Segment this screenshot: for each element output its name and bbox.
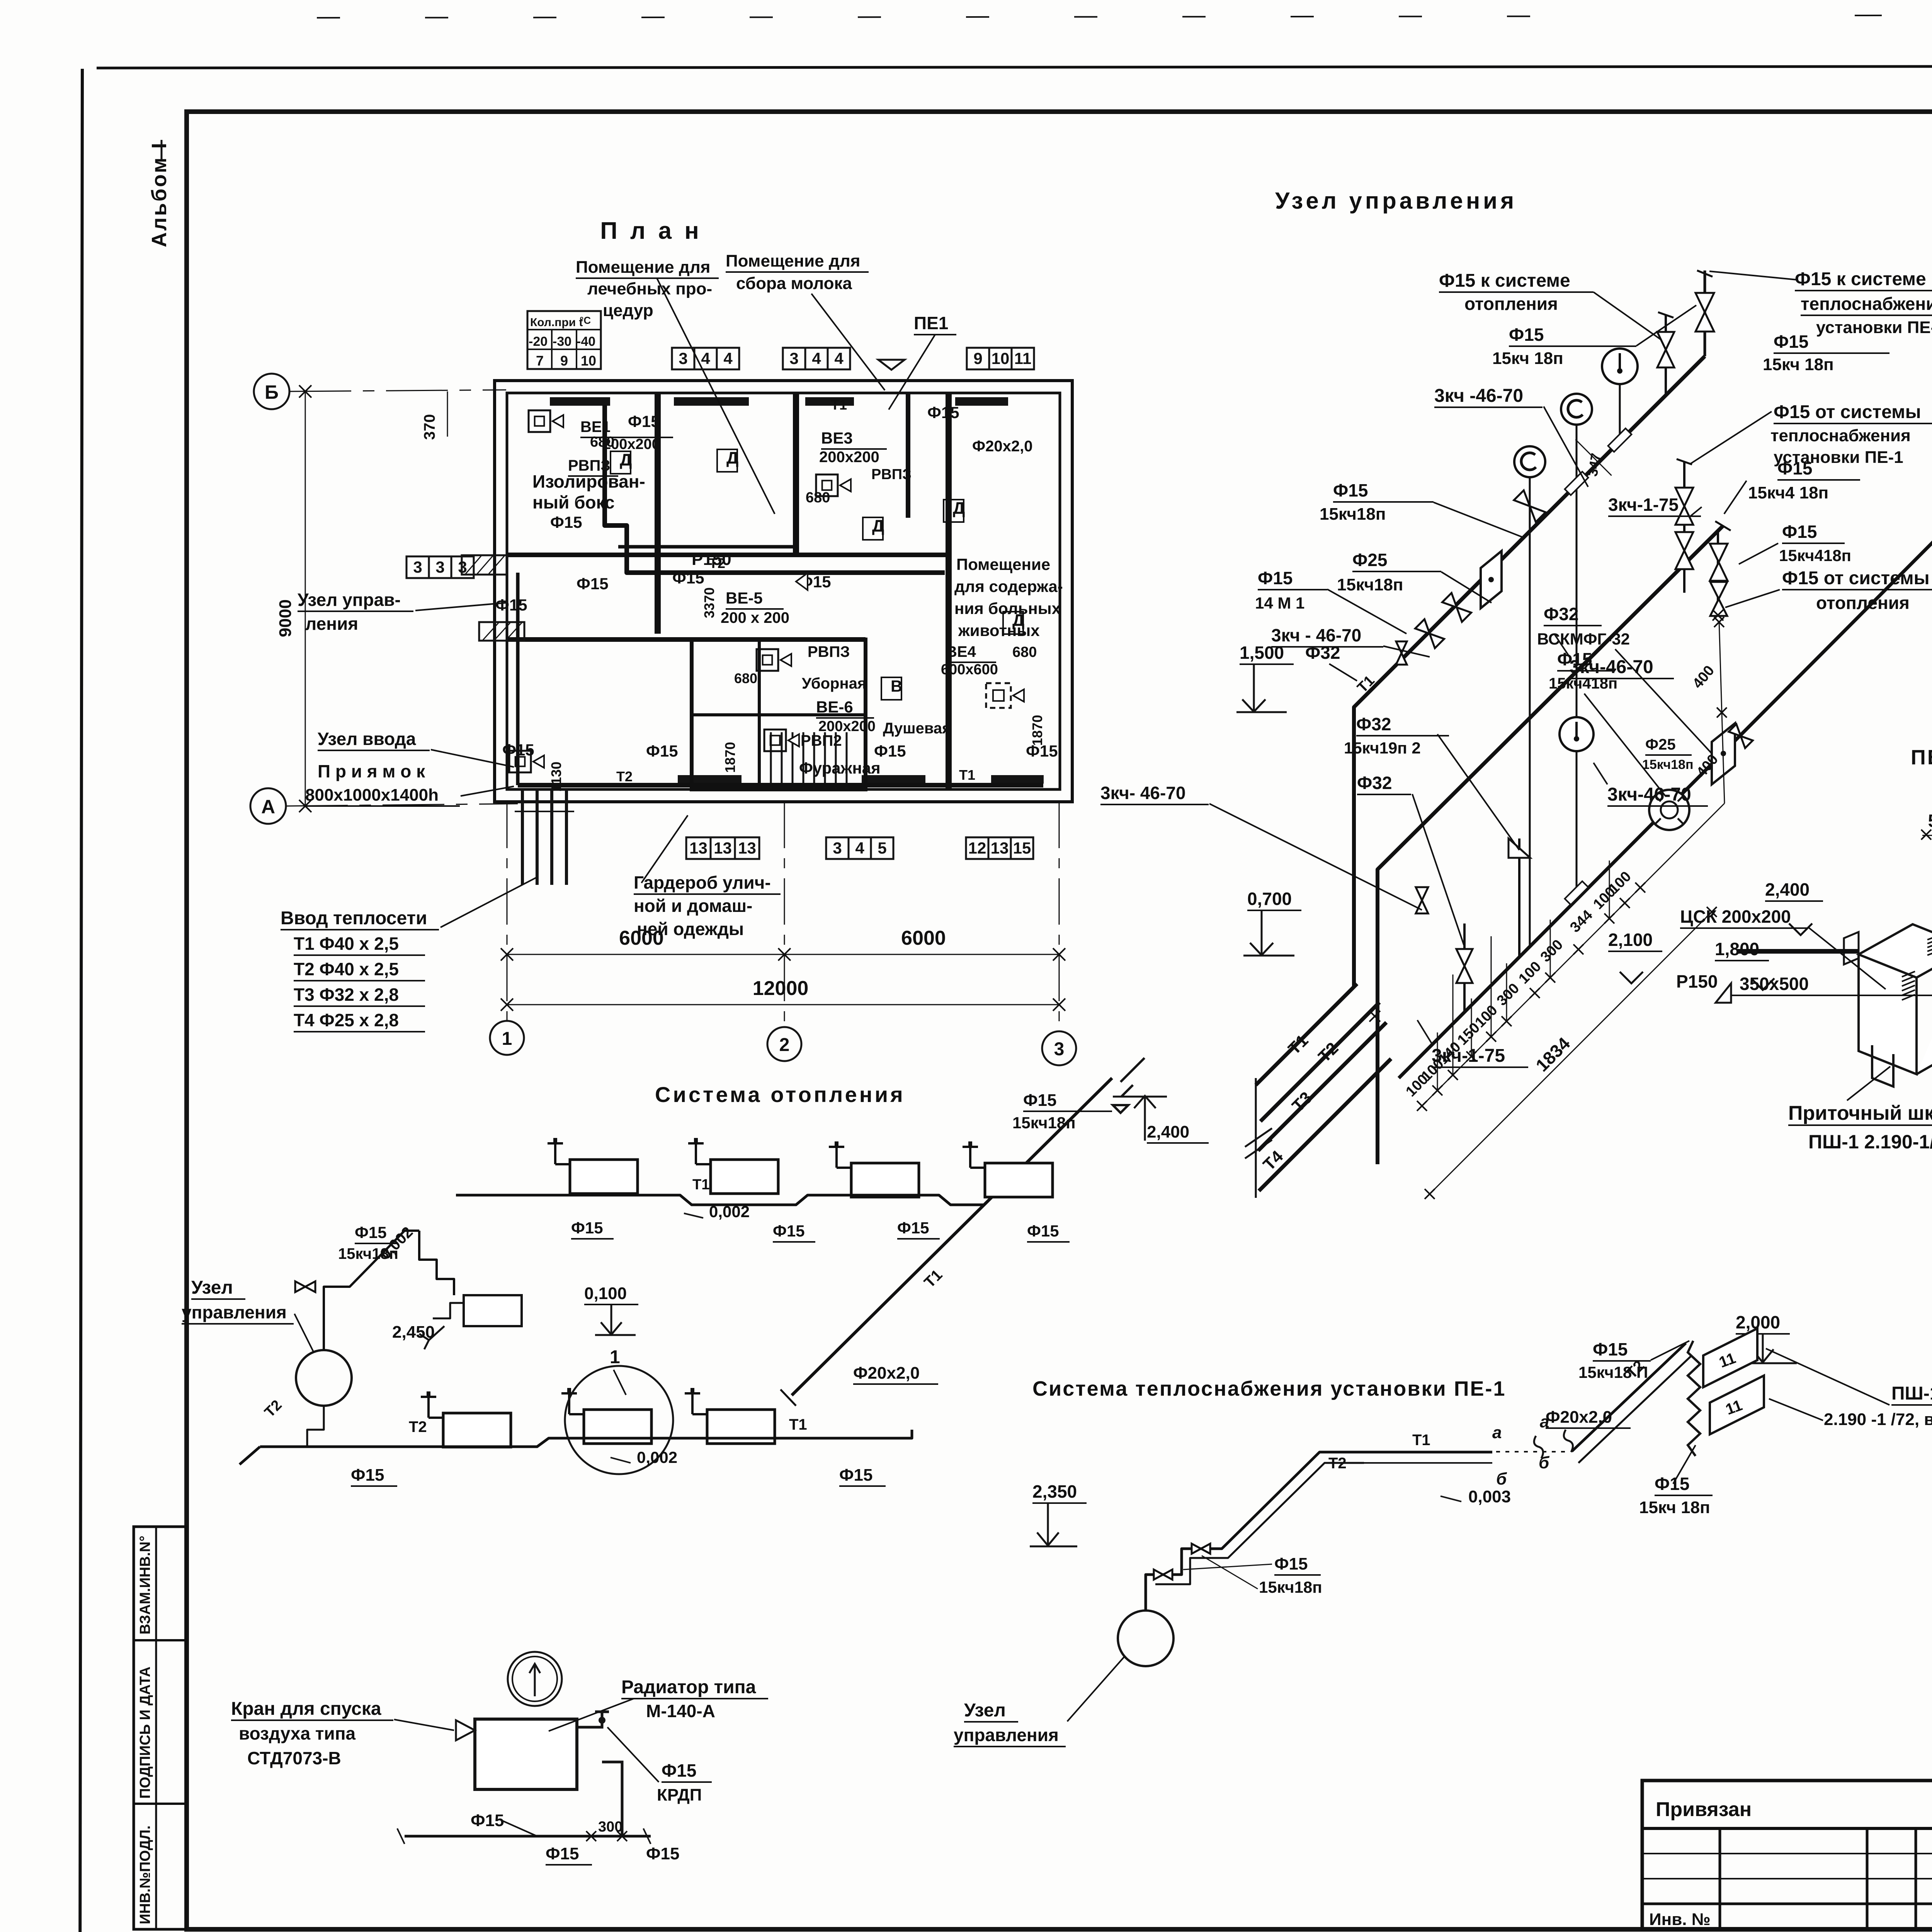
svg-text:2,400: 2,400 — [1765, 879, 1810, 900]
cabinet louver 1 — [1927, 932, 1932, 955]
heating vent tick — [419, 1326, 444, 1349]
partition wall mid low — [692, 637, 866, 642]
small table row Привязан bottom — [1642, 1827, 1932, 1830]
svg-text:10: 10 — [992, 349, 1010, 367]
corner flag on riser C2 — [1509, 838, 1530, 858]
run B low tick — [1713, 610, 1723, 621]
small valve run C a — [1729, 724, 1753, 748]
small table row3 — [1642, 1878, 1932, 1879]
chain drop line 3 — [1471, 998, 1472, 1056]
svg-text:Ф15: Ф15 — [773, 1222, 805, 1240]
leader приямок — [461, 786, 514, 796]
svg-text:ПЕ-1: ПЕ-1 — [1911, 746, 1932, 769]
svg-text:ней одежды: ней одежды — [637, 919, 744, 939]
svg-text:ИНВ.№ПОДЛ.: ИНВ.№ПОДЛ. — [137, 1825, 153, 1924]
svg-text:800х1000х1400h: 800х1000х1400h — [305, 786, 439, 804]
axon elev 1500 — [1236, 665, 1287, 712]
svg-text:Уборная: Уборная — [802, 675, 866, 692]
detail bottom pipe — [405, 1835, 651, 1838]
riser on run B mid — [1683, 462, 1685, 593]
pipe run bottom T — [518, 783, 1043, 787]
svg-text:Радиатор типа: Радиатор типа — [621, 1677, 756, 1697]
ts dotted gap — [1496, 1451, 1568, 1452]
heating top end device — [1113, 1058, 1145, 1113]
svg-text:Ф15: Ф15 — [662, 1760, 696, 1781]
dim tick A — [299, 800, 311, 812]
svg-text:П р и я м о к: П р и я м о к — [318, 761, 425, 781]
detail air valve — [456, 1720, 475, 1740]
partition wall v1 — [655, 393, 661, 634]
chain tick 12 — [1635, 883, 1645, 893]
svg-text:Ф25: Ф25 — [1645, 736, 1676, 753]
vent unit VE-6 — [764, 730, 786, 751]
svg-text:отопления: отопления — [1816, 593, 1910, 613]
svg-text:теплоснабжения: теплоснабжения — [1801, 294, 1932, 314]
ts diag to PSh — [1572, 1343, 1686, 1451]
cabinet flange — [1844, 932, 1859, 964]
svg-text:350х500: 350х500 — [1740, 974, 1809, 994]
svg-text:15кч 18п: 15кч 18п — [1492, 349, 1563, 368]
inlet pipe T3 diagonal — [1258, 1022, 1386, 1151]
svg-text:Ф15: Ф15 — [1509, 325, 1544, 345]
riser B mid tick — [1677, 459, 1692, 464]
chain tick 4 — [1466, 1051, 1476, 1061]
detail circle double — [508, 1652, 562, 1706]
heating stair2 — [433, 1303, 464, 1318]
svg-text:Ф32: Ф32 — [1544, 604, 1578, 624]
svg-text:Ф20х2,0: Ф20х2,0 — [972, 438, 1032, 455]
heat inlet riser ticks — [515, 811, 530, 812]
heating main T1 line — [456, 1195, 842, 1205]
svg-text:ления: ления — [305, 614, 358, 634]
pad on run A 2 — [1565, 472, 1588, 495]
axon leader Ф25 — [1441, 572, 1492, 603]
svg-text:теплоснабжения: теплоснабжения — [1770, 426, 1911, 445]
svg-text:15кч18 П: 15кч18 П — [1578, 1363, 1648, 1381]
box Д2 — [717, 449, 737, 472]
climate table — [527, 311, 601, 369]
partition wall corridor bottom — [507, 637, 692, 642]
attribute column cell line 2 — [134, 1803, 186, 1805]
ts leader f15top — [1651, 1341, 1689, 1360]
axon leader ВСКМФГ — [1615, 649, 1712, 753]
ts leader f15low — [1673, 1445, 1696, 1484]
svg-text:Ф15 к системе: Ф15 к системе — [1439, 270, 1570, 291]
axon leader top2 — [1636, 305, 1696, 346]
svg-text:Приточный шкаф: Приточный шкаф — [1788, 1102, 1932, 1124]
svg-text:10: 10 — [581, 353, 596, 369]
svg-text:4: 4 — [723, 349, 733, 367]
heating elev 0100 — [595, 1305, 636, 1335]
svg-text:а: а — [1492, 1423, 1502, 1442]
symbol P150 arrow — [796, 573, 808, 590]
dim tick 12000 a — [501, 998, 513, 1011]
svg-text:15кч 18п: 15кч 18п — [1763, 355, 1834, 374]
small rooms block — [692, 639, 866, 789]
cabinet leader ЦСК — [1808, 927, 1886, 989]
svg-text:Ф15: Ф15 — [1274, 1554, 1308, 1573]
svg-text:3: 3 — [833, 839, 842, 857]
dim tick 6000 c — [1053, 948, 1065, 961]
radiator bar top 1 — [550, 397, 610, 406]
chain tick 400a — [1717, 707, 1727, 718]
duct lower line — [1731, 995, 1932, 996]
riser C1 — [1463, 923, 1466, 1012]
box Д5 — [1003, 612, 1023, 634]
axon leader right2 — [1724, 481, 1747, 514]
svg-text:Р150: Р150 — [1676, 971, 1718, 992]
chain drop line 4 — [1491, 936, 1492, 1037]
heating T2 left tail — [240, 1447, 260, 1464]
svg-text:ВЕ1: ВЕ1 — [580, 418, 611, 435]
margin label underline I — [161, 140, 163, 159]
svg-text:680: 680 — [1012, 644, 1037, 660]
radiator bar top 2 — [674, 397, 749, 406]
gauge on run C — [1560, 717, 1594, 751]
svg-text:3: 3 — [435, 558, 444, 576]
run B top tick — [1715, 521, 1731, 531]
svg-text:ВЕ-5: ВЕ-5 — [726, 589, 763, 607]
svg-text:отопления: отопления — [1464, 294, 1558, 314]
svg-text:РВПЗ: РВПЗ — [568, 457, 610, 474]
svg-text:Система отопления: Система отопления — [655, 1082, 905, 1107]
svg-text:Ф15: Ф15 — [546, 1844, 579, 1863]
svg-text:Привязан: Привязан — [1656, 1798, 1752, 1821]
svg-text:Ввод теплосети: Ввод теплосети — [281, 908, 427, 929]
radiator l3 — [707, 1410, 775, 1444]
svg-text:Ф15: Ф15 — [1023, 1091, 1057, 1110]
pipe run corridor T2 — [605, 405, 945, 573]
inlet pipe T4 diagonal — [1259, 1059, 1391, 1191]
dim tick 6000 a — [501, 948, 513, 961]
chain tick 400b — [1714, 617, 1724, 627]
leader узел ввода — [431, 750, 514, 767]
svg-text:ПОДПИСЬ И ДАТА: ПОДПИСЬ И ДАТА — [137, 1667, 153, 1799]
svg-text:Узел: Узел — [191, 1277, 233, 1298]
svg-text:Т1 Ф40 х 2,5: Т1 Ф40 х 2,5 — [294, 934, 399, 954]
run A top tick — [1697, 270, 1713, 277]
radiator bar top 4 — [955, 397, 1008, 406]
dim line 6000 — [507, 954, 1059, 955]
chain tick 8 — [1545, 973, 1555, 983]
heat inlet risers T1-T4 — [521, 790, 524, 885]
svg-text:б: б — [1539, 1453, 1550, 1472]
axon leader 3кч lowleft — [1209, 804, 1422, 910]
svg-text:4: 4 — [701, 349, 710, 367]
svg-text:15кч18п: 15кч18п — [1320, 505, 1386, 524]
axon leader 3кч46 left — [1383, 646, 1430, 657]
outer sheet boundary top — [97, 66, 1932, 68]
svg-text:0,002: 0,002 — [709, 1202, 750, 1221]
svg-text:Ф15: Ф15 — [1333, 480, 1368, 500]
title block small table — [1642, 1781, 1932, 1929]
svg-text:15: 15 — [1013, 839, 1031, 857]
riser on run B right — [1717, 531, 1719, 614]
pipe run C to PE-1 — [1399, 502, 1932, 1078]
chain tick 10 — [1604, 913, 1614, 923]
svg-text:Ф15: Ф15 — [897, 1219, 929, 1237]
room box 12-13-15 — [966, 837, 988, 859]
gauge thermometer 1 — [1561, 394, 1592, 425]
svg-text:9: 9 — [560, 353, 568, 369]
valve pair on run A left a — [1415, 619, 1444, 648]
svg-text:1130: 1130 — [548, 762, 564, 792]
svg-text:Ф15: Ф15 — [1557, 649, 1592, 669]
detail leader krdp — [607, 1727, 659, 1782]
axon elev 0700 — [1243, 910, 1294, 956]
svg-text:3: 3 — [1054, 1039, 1065, 1060]
svg-text:3кч-46-70: 3кч-46-70 — [1607, 784, 1691, 805]
box B — [881, 677, 901, 700]
ts PSh box 1 — [1703, 1328, 1757, 1387]
svg-text:Помещение: Помещение — [956, 555, 1050, 573]
dim line 12000 — [507, 1004, 1059, 1005]
riser A top — [1704, 270, 1706, 356]
room box 13-13-13 — [686, 837, 711, 859]
stair steps — [770, 732, 772, 788]
svg-text:2,100: 2,100 — [1608, 930, 1653, 950]
radiator u4 — [985, 1163, 1053, 1197]
chain tick 3 — [1448, 1070, 1458, 1080]
svg-text:Ф32: Ф32 — [1357, 773, 1392, 793]
svg-text:ВСКМФГ-32: ВСКМФГ-32 — [1537, 630, 1630, 648]
leader сбора молока — [811, 294, 885, 390]
riser A2 — [1665, 315, 1667, 395]
svg-text:3: 3 — [789, 349, 798, 367]
svg-text:Ф32: Ф32 — [1356, 714, 1391, 734]
room box 344 second — [783, 348, 805, 369]
svg-text:13: 13 — [991, 839, 1009, 857]
svg-text:6000: 6000 — [901, 927, 946, 949]
radiator bar top 3 — [805, 397, 854, 406]
svg-text:Узел ввода: Узел ввода — [318, 729, 416, 749]
svg-text:Ф32: Ф32 — [1305, 643, 1340, 663]
svg-text:ный бокс: ный бокс — [532, 492, 615, 512]
svg-text:ной и домаш-: ной и домаш- — [634, 896, 752, 916]
valve on riser C1 — [1456, 949, 1473, 983]
axon leader Ф32a — [1329, 664, 1357, 681]
pipe run B — [1378, 526, 1723, 1164]
svg-text:Ф15: Ф15 — [351, 1466, 384, 1485]
axis line 2 — [784, 802, 785, 1027]
svg-text:4: 4 — [812, 349, 821, 367]
svg-text:б: б — [1496, 1469, 1507, 1488]
svg-text:Помещение для: Помещение для — [726, 252, 860, 270]
svg-text:Помещение для: Помещение для — [576, 258, 710, 277]
svg-text:воздуха типа: воздуха типа — [239, 1723, 355, 1743]
svg-text:9000: 9000 — [276, 599, 295, 637]
vent unit VE1 — [529, 410, 550, 432]
svg-text:Ф15: Ф15 — [502, 741, 534, 759]
svg-text:Ф20х2,0: Ф20х2,0 — [853, 1364, 920, 1383]
pad on run C — [1565, 881, 1588, 905]
plan inner wall line — [507, 393, 1060, 789]
svg-text:Ф15: Ф15 — [571, 1219, 603, 1237]
ts elev 2000 — [1743, 1334, 1797, 1363]
small table col3 — [1915, 1828, 1917, 1929]
svg-text:13: 13 — [738, 839, 756, 857]
svg-text:15кч418п: 15кч418п — [1549, 675, 1617, 692]
heating uzel circle — [296, 1350, 352, 1406]
svg-text:ВЕ-6: ВЕ-6 — [816, 698, 853, 716]
svg-text:Т2: Т2 — [409, 1418, 427, 1435]
svg-text:П л а н: П л а н — [600, 218, 702, 244]
leader узел управ — [415, 603, 506, 611]
svg-text:управления: управления — [954, 1725, 1059, 1745]
svg-text:Фуражная: Фуражная — [799, 759, 881, 777]
leader to riser A top — [1709, 271, 1797, 280]
axis circle 1 — [490, 1021, 524, 1055]
box Д1 — [611, 451, 631, 474]
ts uzel leader — [1067, 1656, 1125, 1721]
svg-text:Р150: Р150 — [692, 550, 731, 569]
radiator u2 — [711, 1160, 778, 1194]
svg-text:200 х 200: 200 х 200 — [721, 609, 789, 626]
partition wall v2 — [793, 393, 799, 555]
small table col1 — [1719, 1828, 1721, 1929]
radiator u3 — [851, 1163, 919, 1197]
attribute column box — [134, 1527, 186, 1929]
inlet pipe T1 diagonal — [1256, 984, 1357, 1085]
svg-text:2,350: 2,350 — [1032, 1481, 1077, 1502]
inlet cut vertical — [1255, 1078, 1257, 1198]
svg-text:15кч18п: 15кч18п — [1259, 1578, 1322, 1596]
svg-text:Т3 Ф32 х 2,8: Т3 Ф32 х 2,8 — [294, 985, 399, 1005]
heating T1 line low — [777, 1430, 912, 1438]
svg-text:Т1: Т1 — [1412, 1432, 1430, 1449]
svg-text:Альбом I: Альбом I — [148, 141, 171, 247]
axon leader left1 — [1434, 502, 1522, 537]
axon leader 14М1 — [1327, 589, 1406, 634]
heating pipe from uzel — [324, 1231, 419, 1350]
ts slope arrow — [1440, 1496, 1461, 1502]
svg-text:680: 680 — [734, 670, 757, 686]
detail tick a — [586, 1831, 596, 1841]
svg-text:15кч 18п: 15кч 18п — [1639, 1498, 1710, 1517]
svg-text:7: 7 — [536, 353, 544, 369]
leader лечебных — [657, 278, 775, 514]
ts pipe T1b — [1364, 1462, 1492, 1464]
axon leader 3кч46 second — [1594, 763, 1607, 784]
svg-text:Т4 Ф25 х 2,8: Т4 Ф25 х 2,8 — [294, 1010, 399, 1030]
svg-text:3370: 3370 — [701, 587, 717, 618]
axon leader от отопления — [1725, 590, 1780, 607]
cabinet elev 2400 — [1789, 923, 1812, 935]
supply cabinet box — [1859, 924, 1932, 1074]
svg-text:РВПЗ: РВПЗ — [871, 466, 912, 483]
svg-text:Ф15: Ф15 — [1782, 522, 1817, 542]
axon leader 3кч175 up — [1689, 507, 1702, 517]
symbol ПЕ1 triangle — [878, 360, 905, 370]
svg-text:Ф15: Ф15 — [355, 1223, 387, 1242]
partition wall v3 — [906, 393, 910, 518]
svg-text:15кч4 18п: 15кч4 18п — [1748, 483, 1828, 502]
svg-text:13: 13 — [714, 839, 732, 857]
svg-text:Ф15: Ф15 — [646, 742, 678, 760]
valve on riser B mid a — [1675, 488, 1693, 525]
svg-text:В: В — [891, 677, 902, 695]
svg-text:2,400: 2,400 — [1147, 1122, 1189, 1141]
small table col2 — [1866, 1828, 1869, 1929]
room box 3-4-5 — [826, 837, 849, 859]
heating valve left — [295, 1281, 315, 1292]
svg-text:3: 3 — [679, 349, 687, 367]
svg-text:0,100: 0,100 — [584, 1284, 627, 1303]
chain tick 2 — [1432, 1085, 1442, 1095]
svg-text:ния больных: ния больных — [954, 599, 1061, 617]
svg-text:Т2 Ф40 х 2,5: Т2 Ф40 х 2,5 — [294, 959, 399, 979]
svg-text:0,002: 0,002 — [637, 1448, 677, 1466]
svg-text:3кч-1-75: 3кч-1-75 — [1432, 1046, 1505, 1066]
svg-text:Ф20х2,0: Ф20х2,0 — [1546, 1408, 1612, 1427]
svg-text:ЦСК 200х200: ЦСК 200х200 — [1680, 906, 1791, 927]
ts pipe T1 — [1364, 1451, 1492, 1454]
svg-text:Узел: Узел — [964, 1700, 1006, 1721]
svg-text:370: 370 — [421, 414, 438, 440]
svg-text:1870: 1870 — [722, 742, 738, 773]
svg-text:-40: -40 — [577, 334, 595, 349]
vent unit VE4 600x600 — [986, 683, 1011, 708]
axon leader 3кч46 top — [1544, 406, 1588, 487]
svg-text:Т2: Т2 — [1328, 1455, 1347, 1472]
svg-text:1870: 1870 — [1029, 715, 1045, 746]
ts pipe a — [1146, 1452, 1364, 1611]
axis line 3 — [1059, 802, 1060, 1031]
svg-text:Узел управления: Узел управления — [1275, 188, 1517, 214]
leader гардероб — [641, 815, 688, 883]
svg-text:200х200: 200х200 — [819, 449, 879, 466]
svg-text:Система теплоснабжения установ: Система теплоснабжения установки ПЕ-1 — [1032, 1377, 1506, 1400]
dim tick B — [299, 385, 311, 398]
radiator bar bottom 1 — [678, 775, 742, 784]
svg-text:ВЕ3: ВЕ3 — [821, 429, 853, 447]
inlet break slashes — [1245, 1128, 1272, 1158]
pipe run upper rooms — [618, 545, 796, 549]
vent unit VE-5 — [757, 649, 778, 671]
svg-text:Т1: Т1 — [831, 397, 847, 413]
heating uzel to T2 — [307, 1406, 324, 1447]
svg-text:Ф15: Ф15 — [495, 596, 527, 614]
svg-text:Ф15: Ф15 — [1258, 568, 1293, 588]
heating staircase — [419, 1231, 454, 1295]
leader ввод теплосети — [440, 877, 537, 927]
detail tick b — [617, 1831, 627, 1841]
svg-text:680: 680 — [806, 490, 830, 506]
svg-text:Душевая: Душевая — [883, 720, 951, 737]
small valve run A left — [1396, 641, 1407, 665]
radiator bar bottom 3 — [991, 775, 1044, 784]
svg-text:Ф15: Ф15 — [1655, 1474, 1689, 1494]
svg-text:Т1: Т1 — [789, 1416, 807, 1433]
svg-text:ВЕ4: ВЕ4 — [946, 643, 976, 660]
chain tick 5 — [1486, 1032, 1496, 1042]
torn paper edge top dashes right — [1855, 14, 1932, 15]
hatched wall piece 1 — [462, 555, 507, 575]
svg-text:КРДП: КРДП — [657, 1786, 702, 1804]
chain drop line 9 — [1609, 861, 1610, 918]
hatched wall piece 2 — [479, 622, 524, 641]
small table row4 — [1642, 1903, 1932, 1905]
riser C2 — [1518, 838, 1520, 957]
svg-text:Ф15: Ф15 — [1593, 1339, 1628, 1359]
detail leader радиатор — [549, 1699, 634, 1731]
svg-text:13: 13 — [689, 839, 707, 857]
partition wall corridor top — [507, 553, 949, 557]
svg-text:установки ПЕ-1: установки ПЕ-1 — [1816, 318, 1932, 337]
svg-text:-20: -20 — [529, 334, 548, 349]
svg-text:3кч- 46-70: 3кч- 46-70 — [1100, 783, 1185, 803]
room box 344 first — [672, 348, 694, 369]
